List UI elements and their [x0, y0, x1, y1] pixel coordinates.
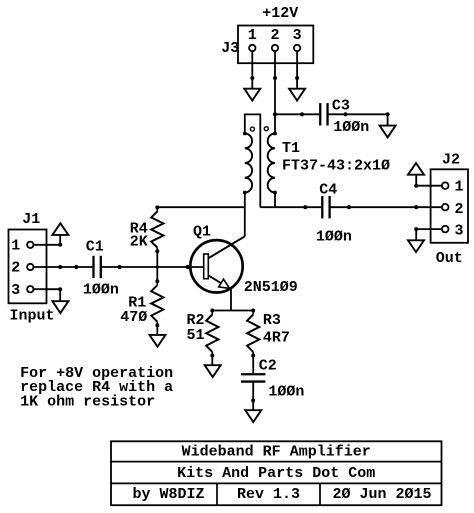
title block divider 1 [216, 483, 218, 505]
svg-text:3: 3 [11, 282, 20, 299]
J1 pin 2 number [11, 260, 20, 277]
svg-text:51: 51 [187, 327, 205, 344]
svg-text:Input: Input [10, 308, 55, 325]
wire T1 to C4 [260, 205, 322, 209]
C4 label [319, 182, 337, 199]
date cell [332, 486, 431, 503]
R2 value 51 [187, 327, 205, 344]
T1 primary winding (left) [243, 132, 252, 195]
svg-text:1: 1 [454, 179, 463, 196]
svg-text:Out: Out [436, 250, 463, 267]
J3 pin 1 stub [250, 51, 254, 80]
capacitor C3 [320, 103, 327, 125]
svg-text:1ØØn: 1ØØn [268, 383, 304, 400]
title block divider 2 [319, 483, 321, 505]
svg-text:2K: 2K [130, 234, 148, 251]
ground under J3 pin 3 [289, 89, 305, 101]
J2 pin 2 number [454, 201, 463, 218]
capacitor C4 [322, 196, 329, 218]
connector J1 label [22, 211, 40, 228]
wire J1 pin3 to ground [59, 289, 61, 301]
J1 pin 2 circle [27, 264, 33, 270]
wire R4 to base node [156, 251, 158, 281]
wire T1 left-top route [245, 114, 260, 207]
J1 pin 3 stub [34, 287, 63, 291]
Out label [436, 250, 463, 267]
svg-text:R3: R3 [263, 312, 281, 329]
svg-text:1ØØn: 1ØØn [333, 119, 369, 136]
svg-text:C4: C4 [319, 182, 337, 199]
wire J1 pin2 to C1 [60, 265, 93, 269]
R2 label [187, 312, 205, 329]
svg-text:2Ø Jun 2Ø15: 2Ø Jun 2Ø15 [332, 486, 431, 503]
svg-text:2: 2 [11, 260, 20, 277]
R3 label [263, 312, 281, 329]
wire J1 pin1 to ground [59, 235, 61, 245]
J3 pin 2 number [270, 27, 279, 44]
ground below R1 [150, 335, 166, 347]
wire R1 to ground [156, 325, 158, 335]
J3 pin 1 circle [249, 45, 255, 51]
R1 value 470 [120, 309, 147, 326]
connector J2 label [442, 152, 460, 169]
svg-text:1: 1 [11, 238, 20, 255]
J2 pin 1 circle [442, 182, 449, 189]
R1 label [128, 295, 146, 312]
title block row line 2 [111, 482, 442, 484]
wire J3 pin1 to ground [251, 78, 253, 89]
J3 pin 1 number [248, 27, 257, 44]
J1 pin 3 number [11, 282, 20, 299]
Q1 base bar [204, 254, 209, 279]
author cell [132, 486, 204, 503]
T1 secondary winding (right) [268, 132, 277, 195]
J2 pin 3 circle [442, 226, 449, 233]
capacitor C1 [94, 256, 101, 278]
J3 pin 2 stub [273, 51, 277, 80]
svg-text:C1: C1 [86, 239, 104, 256]
svg-text:J2: J2 [442, 152, 460, 169]
ground below R2 [205, 365, 221, 377]
svg-text:1: 1 [248, 27, 257, 44]
J1 pin 1 number [11, 238, 20, 255]
svg-text:2N51Ø9: 2N51Ø9 [244, 279, 298, 296]
junction +12V/C3 [273, 112, 277, 116]
C4 value 100n [316, 229, 352, 246]
title text [182, 443, 371, 460]
wire +12V vertical [274, 78, 276, 134]
svg-text:C2: C2 [259, 357, 277, 374]
svg-text:4R7: 4R7 [263, 330, 290, 347]
svg-text:2: 2 [270, 27, 279, 44]
C3 label [332, 98, 350, 115]
svg-text:Rev 1.3: Rev 1.3 [237, 486, 300, 503]
R4 label [130, 221, 148, 238]
Q1 emitter lead [208, 275, 231, 289]
J2 pin 1 stub [414, 184, 442, 188]
svg-text:FT37-43:2x1Ø: FT37-43:2x1Ø [282, 158, 390, 175]
wire R4 to collector [157, 206, 245, 208]
note line 1 [20, 365, 173, 382]
svg-text:47Ø: 47Ø [120, 309, 147, 326]
connector J1 box [9, 230, 47, 304]
junction base/bias [156, 265, 159, 268]
Input label [10, 308, 55, 325]
J3 pin 2 circle [272, 45, 278, 51]
svg-text:3: 3 [454, 223, 463, 240]
svg-text:+12V: +12V [262, 5, 298, 22]
note line 2 [20, 379, 173, 396]
T1 label [282, 140, 300, 157]
J1 pin 1 stub [34, 243, 63, 247]
ground under J3 pin 1 [244, 89, 260, 101]
svg-text:by W8DIZ: by W8DIZ [132, 486, 204, 503]
wire C2 to ground [251, 382, 255, 410]
wire to C3 [275, 112, 319, 116]
svg-text:1K ohm resistor: 1K ohm resistor [20, 393, 155, 410]
ground below J2 pin 3 [408, 240, 424, 252]
T1 phasing dot left [250, 127, 254, 131]
C2 value 100n [268, 383, 304, 400]
svg-text:C3: C3 [332, 98, 350, 115]
T1 phasing dot right [264, 127, 268, 131]
J2 pin 3 number [454, 223, 463, 240]
J3 pin 3 number [293, 27, 302, 44]
svg-text:Wideband RF Amplifier: Wideband RF Amplifier [182, 443, 371, 460]
svg-text:1ØØn: 1ØØn [83, 281, 119, 298]
title block row line 1 [111, 461, 442, 463]
J2 pin 1 number [454, 179, 463, 196]
wire C3 to ground [329, 112, 390, 125]
wire R2 to ground [211, 356, 213, 366]
resistor R3 [247, 309, 259, 358]
note line 3 [20, 393, 155, 410]
R3 value 4R7 [263, 330, 290, 347]
connector J2 box [431, 169, 468, 243]
ground above J1 pin 1 [52, 223, 68, 235]
T1 value FT37-43:2x10 [282, 158, 390, 175]
J2 pin 2 circle [442, 204, 449, 211]
ground below C2 [245, 410, 261, 422]
wire R3 to C2 [252, 356, 254, 374]
svg-text:3: 3 [293, 27, 302, 44]
svg-text:J3: J3 [221, 40, 239, 57]
C2 label [259, 357, 277, 374]
svg-text:T1: T1 [282, 140, 300, 157]
wire C1 to base [101, 265, 204, 269]
connector J3 label [221, 40, 239, 57]
ground above J2 pin 1 [408, 163, 424, 175]
J1 pin 3 circle [27, 286, 33, 292]
wire T1 right-bottom lead [274, 193, 276, 208]
C1 value 100n [83, 281, 119, 298]
ground below J1 pin 3 [52, 301, 68, 313]
Q1 collector lead [208, 236, 245, 258]
wire collector diagonal [209, 236, 245, 258]
transistor Q1 circle [190, 240, 242, 292]
svg-text:1ØØn: 1ØØn [316, 229, 352, 246]
resistor R1 [151, 279, 163, 327]
wire emitter vertical [230, 289, 232, 310]
R4 value 2K [130, 234, 148, 251]
Q1 part number 2N5109 [244, 279, 298, 296]
wire emitter horizontal [212, 310, 253, 312]
J3 pin 3 circle [294, 45, 300, 51]
revision cell [237, 486, 300, 503]
connector J3 box [238, 26, 313, 64]
svg-text:J1: J1 [22, 211, 40, 228]
resistor R4 [151, 205, 163, 253]
J1 pin 2 stub [34, 265, 63, 269]
title block outer box [111, 441, 442, 505]
svg-text:2: 2 [454, 201, 463, 218]
J2 pin 3 stub [414, 227, 442, 231]
wire J2 pin3 to ground [415, 229, 417, 240]
svg-text:Q1: Q1 [193, 224, 211, 241]
net label +12V [262, 5, 298, 22]
J1 pin 1 circle [27, 242, 33, 248]
Q1 emitter arrowhead [219, 279, 230, 288]
C1 label [86, 239, 104, 256]
capacitor C2 [241, 374, 265, 381]
wire J3 pin3 to ground [296, 78, 298, 89]
J3 pin 3 stub [295, 51, 299, 80]
resistor R2 [206, 309, 218, 358]
wire collector vertical [244, 193, 246, 237]
subtitle text [177, 465, 375, 482]
C3 value 100n [333, 119, 369, 136]
svg-text:Kits And Parts Dot Com: Kits And Parts Dot Com [177, 465, 375, 482]
Q1 label [193, 224, 211, 241]
ground right of C3 [380, 126, 396, 138]
wire J2 pin1 to ground [415, 175, 417, 186]
wire C4 to J2 pin2 [330, 205, 442, 209]
